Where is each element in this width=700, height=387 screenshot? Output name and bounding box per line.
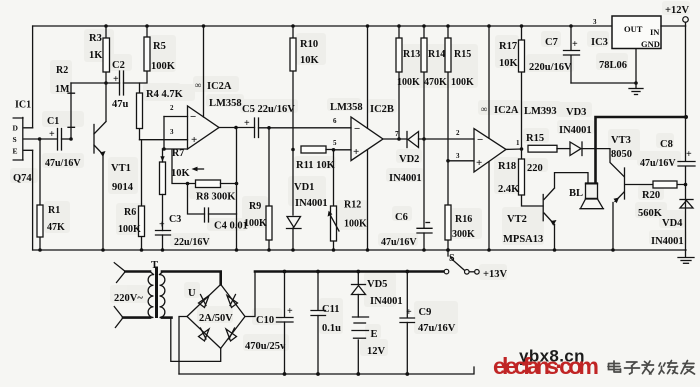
svg-text:C4 0.01: C4 0.01 bbox=[214, 221, 248, 232]
svg-text:VD5: VD5 bbox=[367, 279, 387, 290]
svg-text:+13V: +13V bbox=[483, 269, 507, 280]
svg-text:IN: IN bbox=[650, 27, 660, 37]
svg-text:GND: GND bbox=[641, 39, 660, 49]
svg-text:12V: 12V bbox=[367, 346, 386, 357]
svg-text:R11 10K: R11 10K bbox=[296, 160, 336, 171]
svg-text:47u/16V: 47u/16V bbox=[45, 158, 81, 169]
svg-text:1M: 1M bbox=[55, 84, 70, 95]
svg-text:R12: R12 bbox=[344, 200, 361, 211]
svg-text:+: + bbox=[49, 129, 55, 140]
svg-text:VT1: VT1 bbox=[111, 163, 131, 174]
svg-text:470u/25v: 470u/25v bbox=[245, 341, 286, 352]
svg-text:VD4: VD4 bbox=[662, 218, 683, 229]
svg-text:2.4K: 2.4K bbox=[498, 184, 520, 195]
svg-text:0.1u: 0.1u bbox=[322, 323, 341, 334]
svg-text:U: U bbox=[188, 288, 196, 299]
svg-text:2: 2 bbox=[170, 104, 174, 112]
svg-text:100K: 100K bbox=[451, 77, 474, 88]
svg-text:OUT: OUT bbox=[624, 24, 643, 34]
svg-text:1K: 1K bbox=[89, 50, 103, 61]
svg-text:VD2: VD2 bbox=[399, 154, 419, 165]
svg-text:3: 3 bbox=[456, 152, 460, 160]
svg-text:47K: 47K bbox=[47, 222, 65, 233]
svg-text:+12V: +12V bbox=[665, 5, 689, 16]
svg-text:9014: 9014 bbox=[112, 182, 134, 193]
svg-text:R13: R13 bbox=[403, 49, 420, 60]
svg-text:100K: 100K bbox=[344, 219, 367, 230]
svg-text:IN4001: IN4001 bbox=[370, 296, 403, 307]
svg-text:+: + bbox=[406, 307, 412, 318]
svg-text:3: 3 bbox=[593, 18, 597, 26]
svg-text:47u/16V: 47u/16V bbox=[381, 237, 417, 248]
svg-text:IN4001: IN4001 bbox=[389, 173, 422, 184]
svg-text:R6: R6 bbox=[124, 207, 136, 218]
svg-text:100K: 100K bbox=[151, 61, 176, 72]
svg-text:+: + bbox=[159, 220, 165, 231]
svg-text:+: + bbox=[191, 134, 197, 146]
svg-text:+: + bbox=[353, 146, 359, 158]
svg-text:E: E bbox=[13, 147, 18, 156]
svg-text:IC3: IC3 bbox=[591, 37, 608, 48]
svg-text:220u/16V: 220u/16V bbox=[529, 62, 572, 73]
svg-text:R10: R10 bbox=[300, 39, 318, 50]
svg-text:78L06: 78L06 bbox=[599, 60, 627, 71]
svg-text:C9: C9 bbox=[419, 307, 432, 318]
svg-text:−: − bbox=[354, 123, 360, 135]
svg-text:Q74: Q74 bbox=[13, 173, 32, 184]
svg-text:+: + bbox=[572, 39, 578, 50]
svg-text:5: 5 bbox=[333, 139, 337, 147]
svg-text:R20: R20 bbox=[642, 190, 660, 201]
svg-text:C10: C10 bbox=[256, 315, 274, 326]
svg-text:MPSA13: MPSA13 bbox=[503, 234, 543, 245]
svg-text:10K: 10K bbox=[300, 55, 320, 66]
svg-text:R5: R5 bbox=[153, 41, 166, 52]
svg-text:LM393: LM393 bbox=[524, 106, 557, 117]
svg-text:+: + bbox=[476, 157, 482, 169]
svg-text:47u/16V: 47u/16V bbox=[640, 158, 676, 169]
svg-text:C1: C1 bbox=[47, 116, 59, 127]
svg-text:∞: ∞ bbox=[195, 80, 201, 90]
svg-text:C2: C2 bbox=[112, 60, 125, 71]
svg-text:IC1: IC1 bbox=[15, 100, 31, 111]
svg-text:∞: ∞ bbox=[481, 104, 487, 114]
svg-text:8050: 8050 bbox=[611, 149, 632, 160]
svg-text:220: 220 bbox=[527, 163, 543, 174]
svg-text:IN4001: IN4001 bbox=[651, 236, 684, 247]
svg-text:10K: 10K bbox=[499, 58, 519, 69]
svg-text:100K: 100K bbox=[118, 224, 141, 235]
svg-text:3: 3 bbox=[170, 128, 174, 136]
svg-text:VT2: VT2 bbox=[507, 214, 527, 225]
svg-text:R9: R9 bbox=[249, 201, 261, 212]
svg-text:IN4001: IN4001 bbox=[295, 198, 328, 209]
svg-text:IC2B: IC2B bbox=[370, 104, 394, 115]
svg-text:C8: C8 bbox=[660, 139, 673, 150]
svg-text:R8 300K: R8 300K bbox=[196, 192, 236, 203]
svg-text:R18: R18 bbox=[498, 161, 516, 172]
svg-text:C7: C7 bbox=[545, 37, 558, 48]
svg-text:E: E bbox=[371, 329, 378, 340]
svg-text:R15: R15 bbox=[526, 133, 544, 144]
svg-text:C3: C3 bbox=[169, 214, 181, 225]
svg-text:6: 6 bbox=[333, 117, 337, 125]
svg-text:BL: BL bbox=[569, 188, 583, 199]
svg-text:VD3: VD3 bbox=[566, 107, 586, 118]
svg-text:2A/50V: 2A/50V bbox=[199, 313, 233, 324]
svg-text:1: 1 bbox=[516, 139, 520, 147]
svg-text:300K: 300K bbox=[452, 229, 475, 240]
svg-text:elecfans·com: elecfans·com bbox=[493, 353, 599, 379]
svg-text:C5 22u/16V: C5 22u/16V bbox=[242, 104, 295, 115]
svg-text:+: + bbox=[686, 149, 692, 160]
svg-text:470K: 470K bbox=[424, 77, 447, 88]
svg-text:+: + bbox=[287, 306, 293, 317]
svg-text:−: − bbox=[477, 134, 483, 146]
svg-text:C6: C6 bbox=[395, 212, 408, 223]
svg-text:IC2A: IC2A bbox=[494, 105, 519, 116]
svg-text:100K: 100K bbox=[397, 77, 420, 88]
svg-text:LM358: LM358 bbox=[209, 98, 242, 109]
svg-text:S: S bbox=[13, 135, 17, 144]
svg-text:R16: R16 bbox=[455, 214, 472, 225]
svg-text:IC2A: IC2A bbox=[207, 81, 232, 92]
svg-text:R2: R2 bbox=[56, 65, 68, 76]
svg-text:R7: R7 bbox=[172, 148, 184, 159]
svg-text:47u: 47u bbox=[112, 99, 129, 110]
svg-text:VD1: VD1 bbox=[294, 182, 314, 193]
svg-text:+: + bbox=[244, 118, 250, 129]
svg-text:47u/16V: 47u/16V bbox=[418, 323, 456, 334]
svg-text:VT3: VT3 bbox=[611, 135, 631, 146]
svg-text:−: − bbox=[190, 111, 196, 123]
svg-text:R17: R17 bbox=[499, 41, 517, 52]
svg-text:LM358: LM358 bbox=[330, 102, 363, 113]
svg-text:2: 2 bbox=[456, 129, 460, 137]
svg-text:IN4001: IN4001 bbox=[559, 125, 592, 136]
svg-text:10K: 10K bbox=[171, 168, 191, 179]
svg-text:D: D bbox=[13, 124, 19, 133]
svg-text:100K: 100K bbox=[244, 218, 267, 229]
svg-text:R14: R14 bbox=[428, 49, 445, 60]
svg-text:R3: R3 bbox=[89, 33, 102, 44]
svg-text:22u/16V: 22u/16V bbox=[174, 237, 210, 248]
svg-text:R4 4.7K: R4 4.7K bbox=[146, 89, 184, 100]
svg-text:R1: R1 bbox=[48, 205, 60, 216]
svg-text:C11: C11 bbox=[322, 304, 340, 315]
svg-text:560K: 560K bbox=[638, 208, 663, 219]
svg-text:R15: R15 bbox=[454, 49, 471, 60]
svg-text:220V~: 220V~ bbox=[114, 293, 143, 304]
svg-text:+: + bbox=[113, 74, 119, 85]
